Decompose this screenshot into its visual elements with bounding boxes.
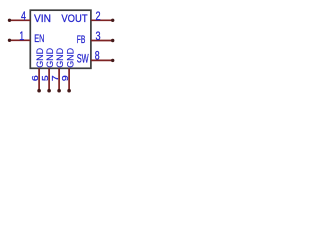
node dot pin 6 [37,89,41,93]
node dot pin 2 [111,19,114,22]
svg-text:4: 4 [21,11,26,23]
node dot pin 8 [111,59,114,62]
wire pin 5 (GND) [48,68,50,90]
svg-text:EN: EN [34,33,44,45]
wire pin 7 (GND) [58,68,60,90]
wire pin 3 (FB) [91,40,113,42]
wire pin 9 (GND) [68,68,70,90]
svg-text:FB: FB [77,34,86,46]
svg-text:9: 9 [61,75,70,82]
wire pin 8 (SW) [91,59,113,61]
node dot pin 5 [47,89,51,93]
svg-text:8: 8 [95,51,100,63]
svg-text:6: 6 [31,75,40,82]
svg-text:7: 7 [51,75,60,82]
wire pin 4 (VIN) [9,19,30,21]
svg-text:1: 1 [19,31,24,43]
op-amp/regulator IC symbol U? [0,0,122,101]
wire pin 6 (GND) [38,68,40,90]
wire pin 1 (EN) [9,39,30,41]
node dot pin 9 [67,89,71,93]
svg-text:2: 2 [96,11,101,23]
svg-text:VOUT: VOUT [61,13,87,25]
svg-text:GND: GND [65,48,76,68]
node dot pin 7 [57,89,61,93]
svg-text:SW: SW [77,53,89,65]
wire pin 2 (VOUT) [91,19,113,21]
node dot pin 1 [8,39,11,42]
node dot pin 3 [111,39,114,42]
svg-text:VIN: VIN [34,13,51,25]
svg-text:3: 3 [96,31,101,43]
node dot pin 4 [8,19,11,22]
IC body rectangle [30,10,91,68]
svg-text:5: 5 [41,75,50,82]
